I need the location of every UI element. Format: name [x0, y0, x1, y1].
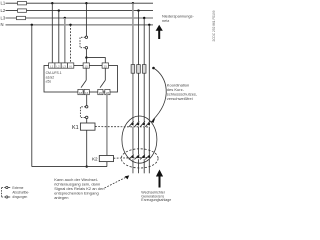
wire supply down to jumper	[85, 3, 87, 36]
external trip contact 1	[2, 187, 6, 189]
feeder N	[148, 25, 150, 122]
linkage K1 dashed	[95, 126, 148, 128]
svg-text:netz: netz	[162, 18, 169, 23]
svg-text:L2: L2	[1, 8, 6, 13]
node grid tap L1	[132, 2, 134, 4]
node N return tap	[31, 24, 33, 26]
terminal 16	[84, 89, 89, 94]
terminal 25	[102, 63, 108, 68]
node L1 tap supply	[85, 2, 87, 4]
jumper link lower	[86, 106, 88, 108]
wire L1 feed to terminal	[51, 3, 53, 63]
terminal 18	[78, 89, 83, 94]
terminal L3	[61, 63, 67, 68]
svg-text:N: N	[1, 22, 4, 27]
svg-text:L1: L1	[1, 1, 6, 6]
feeder L1	[132, 3, 134, 121]
wire N return vertical	[31, 25, 33, 167]
wire L2 feed to terminal	[58, 11, 60, 63]
svg-text:18: 18	[79, 91, 83, 95]
wire 16 down	[86, 95, 88, 106]
svg-text:2CDC 252 861 F0199: 2CDC 252 861 F0199	[212, 10, 216, 41]
terminal N	[68, 63, 74, 68]
svg-text:L3: L3	[63, 64, 67, 68]
svg-text:Externe: Externe	[12, 186, 23, 190]
contact 25-28	[104, 68, 106, 80]
wire N feed dashed	[70, 25, 72, 63]
svg-text:28: 28	[106, 91, 110, 95]
svg-text:L1: L1	[50, 64, 54, 68]
terminal 26	[98, 89, 103, 94]
node grid tap N	[148, 24, 150, 26]
relay U1 box CM-UFS.1	[44, 66, 118, 93]
wire down to 15	[85, 58, 87, 63]
svg-text:L2: L2	[56, 64, 60, 68]
contactor K1 main contacts	[129, 121, 150, 127]
terminal 15	[83, 63, 89, 68]
svg-text:K2: K2	[92, 157, 98, 162]
wire K2 down	[106, 162, 108, 167]
node N tap to relay	[69, 24, 71, 26]
wire 28 down to K2	[106, 95, 108, 156]
feeder L3	[143, 18, 145, 121]
wire external link dashed vertical	[1, 188, 3, 198]
svg-text:CM-UFS.1: CM-UFS.1	[46, 71, 62, 75]
wire N bus	[6, 24, 154, 26]
fuse F3 on L3	[17, 16, 26, 19]
fuse F2 on L2	[18, 9, 27, 12]
node grid tap L2	[137, 9, 139, 11]
wire L3 feed to terminal	[64, 18, 66, 63]
node L1 tap to relay	[51, 2, 53, 4]
node K1-N junction	[86, 165, 88, 167]
svg-text:anlegen: anlegen	[54, 195, 68, 200]
wire L1 bus	[6, 2, 154, 4]
node L3 tap to relay	[64, 17, 66, 19]
fuse F6 feeder L3	[142, 65, 146, 74]
coil K1	[80, 123, 95, 130]
node grid tap L3	[143, 17, 145, 19]
svg-text:15: 15	[85, 64, 89, 68]
terminal L2	[55, 63, 61, 68]
svg-text:Erzeugungsanlage: Erzeugungsanlage	[141, 198, 171, 202]
coil K2	[99, 156, 113, 162]
contactor K2 main contacts	[129, 154, 150, 159]
svg-text:25: 25	[104, 64, 108, 68]
wire K1 to N return	[86, 130, 88, 166]
wire jumper to K1	[86, 119, 88, 123]
feeder L2	[138, 11, 140, 122]
svg-text:K1: K1	[72, 125, 79, 131]
contact 15-18	[85, 68, 87, 80]
dashed arrow note to K2	[105, 177, 128, 189]
svg-text:16: 16	[85, 91, 89, 95]
wire jumper to split	[85, 49, 87, 58]
wire L3 bus	[6, 17, 154, 19]
wire L2 bus	[6, 10, 154, 12]
wire split horizontal	[86, 58, 105, 63]
generator ellipse inner	[121, 149, 158, 168]
svg-text:a1/a2: a1/a2	[46, 75, 55, 79]
fuse F4 feeder L1	[131, 65, 135, 74]
terminal 28	[105, 89, 110, 94]
node split 15/25	[85, 56, 87, 58]
arrow from generator	[159, 176, 161, 188]
fuse F1 on L1	[18, 2, 27, 5]
wire N return bottom	[32, 166, 107, 168]
svg-text:Abschaltbe-: Abschaltbe-	[12, 190, 29, 194]
svg-text:verschweißfrei: verschweißfrei	[167, 96, 193, 101]
svg-text:L3: L3	[1, 15, 6, 20]
svg-text:26: 26	[99, 91, 103, 95]
callout arc short-circuit coordination	[152, 67, 155, 70]
fuse F5 feeder L2	[137, 65, 141, 74]
svg-text:dingungen: dingungen	[12, 195, 27, 199]
node L2 tap to relay	[58, 9, 60, 11]
svg-text:N: N	[70, 64, 72, 68]
linkage K2 dashed	[114, 157, 149, 160]
svg-text:≤5s: ≤5s	[46, 80, 52, 84]
generator ellipse outer	[122, 116, 157, 163]
external trip contact 2	[2, 196, 6, 198]
terminal L1	[49, 63, 55, 68]
arrow to grid	[158, 30, 160, 40]
jumper link upper	[85, 36, 87, 38]
